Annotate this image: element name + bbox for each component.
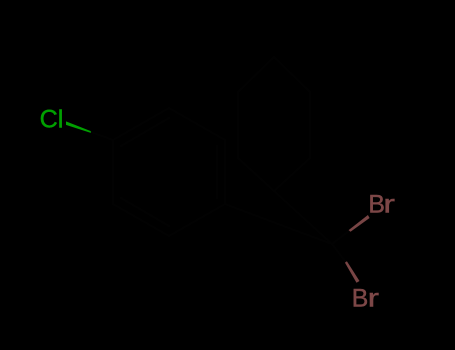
bond Cl-C1 : chlorine half (green, tapered toward carbon)	[66, 121, 91, 132]
bond C7 to Br2 (carbon half, black)	[332, 244, 346, 262]
svg-text:B: B	[352, 286, 369, 313]
atom label Br1 (bromine, maroon)	[368, 191, 395, 219]
cyclohexane ring (upper right)	[238, 57, 310, 191]
svg-text:Cl: Cl	[40, 105, 64, 133]
bond ring2 to C7	[274, 191, 332, 244]
benzene inner double bonds	[121, 118, 217, 226]
benzene ring C1-C6	[113, 108, 225, 236]
svg-text:r: r	[368, 285, 379, 312]
atom label Cl (chlorine, green)	[40, 105, 64, 133]
svg-text:r: r	[383, 191, 395, 219]
bond C1 to Cl (carbon half, black)	[90, 132, 114, 141]
atom label Br2 (bromine, maroon)	[352, 285, 379, 313]
bond C7 to Br1 (carbon half, black)	[332, 231, 349, 244]
bond C7-Br1 : bromine half (maroon, tapered toward carbon)	[349, 215, 370, 232]
carbon skeleton (drawn black-on-black as in source image; invisible)	[90, 57, 350, 262]
bond C7-Br2 : bromine half (maroon, tapered toward carbon)	[345, 261, 360, 283]
bond C4 to C7 chain	[225, 204, 332, 244]
